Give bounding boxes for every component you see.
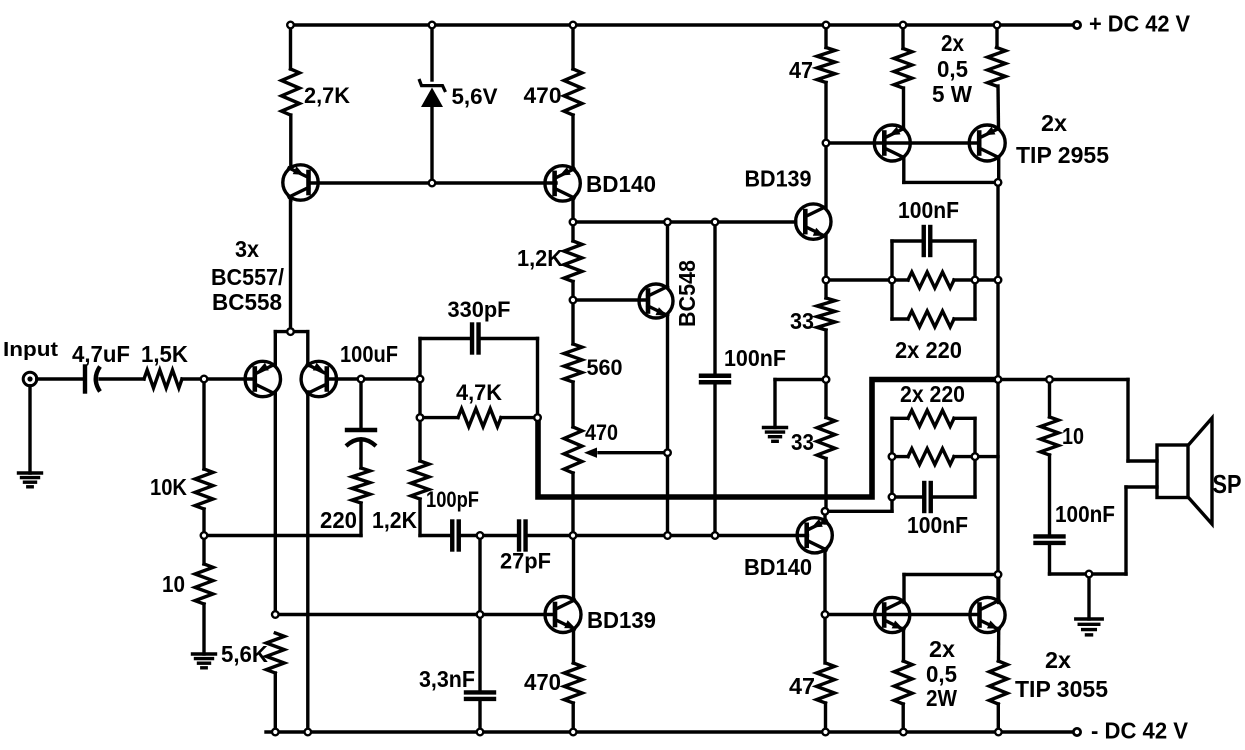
svg-text:+ DC 42 V: + DC 42 V [1089,11,1191,37]
wire out rail [996,182,999,600]
resistor 560 [564,344,582,382]
zener D1 5,6V [419,79,446,183]
resistor 1,2K lower [411,461,429,499]
wire q11 emitter [902,629,905,662]
svg-text:1,2K: 1,2K [517,245,563,271]
wire 10K to node [202,509,205,536]
svg-text:5,6K: 5,6K [221,641,268,667]
svg-text:2x 220: 2x 220 [900,381,965,407]
label +DC 42 V [1089,11,1191,37]
wire 100pF to node [462,534,480,537]
resistor 0,5 2W a [894,661,912,704]
wire 2,7K to rail [289,25,292,69]
svg-text:BD139: BD139 [745,166,812,192]
label 100nF mid [724,345,786,371]
label 3x [235,236,259,262]
node zener bottom [429,180,436,187]
wire -DC rail [266,730,1077,733]
node block2 right [972,453,979,460]
wire node to 10 [202,536,205,565]
wire lower base line [275,613,555,616]
node drv base3055 [822,611,829,618]
wire comp mid to bc548 [573,534,668,537]
wire block1 top [892,239,975,242]
wire q10 collector [997,158,1000,183]
label 2x bot [929,636,955,662]
label 2x 220 b1 [895,337,962,363]
wire 470low bottom [572,703,575,732]
wire b2 to rail [975,455,998,458]
node rail 280 [995,277,1002,284]
wire 10 top [1048,380,1051,418]
wire 0,5a down [902,88,905,129]
wire BC548 collector [666,222,669,287]
resistor 470 top [564,69,582,115]
wire b2 top joins [892,417,975,420]
svg-text:3,3nF: 3,3nF [419,666,475,692]
wire node to 27pF [480,534,519,537]
wire drv to 47low [823,615,826,664]
svg-text:100nF: 100nF [907,512,968,538]
svg-text:2x: 2x [1045,647,1071,673]
node fb right [534,414,541,421]
label TIP 3055 [1015,676,1108,702]
svg-text:100uF: 100uF [340,341,398,367]
wire bc548 base [573,298,648,301]
label 2x 220 b2 [900,381,965,407]
wire 47low bottom [824,703,827,732]
label 0,5 top [937,56,968,82]
label 2,7K [304,83,350,108]
wire fb right down [536,339,539,418]
label 47 low [789,673,815,699]
svg-text:TIP 3055: TIP 3055 [1015,676,1108,702]
label 1,2K upper [517,245,563,271]
label 1,5K [141,341,188,367]
wire 5,6K bottom [274,673,277,732]
wire 470 to Q4 [571,115,574,169]
node out top [995,179,1002,186]
svg-text:0,5: 0,5 [937,56,968,82]
capacitor 330pF [472,325,479,353]
wire bd139u collector [824,143,827,208]
wire 33l joins [824,380,827,512]
svg-text:SP: SP [1213,469,1242,499]
svg-text:2,7K: 2,7K [304,83,350,108]
svg-text:4,7uF: 4,7uF [72,341,130,367]
capacitor 3,3nF [466,692,494,699]
resistor 47 top [817,48,835,83]
label 100nF zobel [1055,501,1115,527]
label 10 zobel [1062,423,1084,449]
node comp 100nF [712,532,719,539]
wire C1 to R1 [100,377,144,380]
ground input [19,473,42,487]
wire speaker minus [1126,487,1157,574]
transistor Q9 TIP2955 [874,125,910,161]
svg-text:BC558: BC558 [212,289,282,315]
wire node to 10K [202,379,205,469]
wiper arrow [584,448,668,458]
svg-text:2x 220: 2x 220 [895,337,962,363]
wire zobel gnd [1087,574,1090,619]
node fb top [417,376,424,383]
wire 4,7K right [501,416,538,419]
label 2x top [941,30,964,56]
label 2x 2955 [1041,110,1067,136]
wire 3,3nF bottom [478,702,481,732]
node out low [995,571,1002,578]
svg-text:27pF: 27pF [500,549,551,574]
node rail left [287,22,294,29]
svg-text:Input: Input [3,339,58,361]
label 5,6V [452,84,498,109]
label BC558 [212,289,282,315]
wire 330pF right [482,337,538,340]
wire base 3055 [825,613,980,616]
wire Q3 emitter [306,332,309,366]
wire base 2955 [826,141,980,144]
wire 0,5 2W a bot [902,704,905,732]
wire block1 left [890,241,893,319]
svg-text:1,2K: 1,2K [372,507,417,533]
label 10 [162,571,185,597]
capacitor 100nF mid [701,376,729,383]
label 0,5 bot [926,661,957,687]
label 470 top [524,83,562,108]
label BC557/ [211,264,285,290]
wire Q3base down [359,379,362,428]
node rail 3,3nF [477,729,484,736]
wire 280 line [826,278,892,281]
svg-text:10: 10 [1062,423,1084,449]
node rail 5,6K [272,729,279,736]
label 100nF b1 [898,197,959,223]
wire speaker plus [1128,380,1157,462]
resistor 0,5 2W b [989,661,1007,704]
node wiper junction [664,449,671,456]
wire block1 right [973,241,976,319]
capacitor 100nF b2 [924,483,931,511]
wire block2 left [890,418,893,497]
svg-text:470: 470 [524,83,562,108]
wire fb up [418,339,421,380]
node rail Q3 [305,729,312,736]
wire 10 to 100nF [1048,455,1051,534]
node rail 2Wb [995,729,1002,736]
terminal -DC [1073,728,1080,735]
resistor 47 low [817,663,835,703]
node block2 bl [889,494,896,501]
node rail 47low [822,729,829,736]
node emitter junction [287,328,294,335]
transistor Q12 TIP3055 [970,597,1005,632]
capacitor 100nF b1 [924,227,931,255]
transistor Q2 BC557 [245,361,280,396]
wire Q2 emitter [274,332,277,366]
node comp mid [570,532,577,539]
transistor Q1 BC557 [283,165,318,200]
label -DC 42 V [1091,718,1189,744]
wire 33u joins [824,280,827,380]
node drv low [822,508,829,515]
node fb mid [417,414,424,421]
wire 330pF left [420,337,469,340]
wire rail to 0,5a [901,25,904,49]
label 10K [150,474,187,500]
wire 1,2K lower top [418,418,421,461]
label 2x 3055 [1045,647,1071,673]
wire 4,7K left [420,416,458,419]
transistor Q8 BD140 [797,518,832,553]
svg-text:5,6V: 5,6V [452,84,498,109]
wire 560 join [571,300,574,427]
svg-text:5 W: 5 W [932,81,972,107]
resistor 1,2K upper [564,241,582,282]
label 470 trimmer [585,420,618,445]
svg-text:100nF: 100nF [898,197,959,223]
label BC548 [674,260,700,327]
transistor Q3 BC557 [301,361,336,396]
node rail 2Wa [900,729,907,736]
node 222 bc548 [664,219,671,226]
ground mid-left [193,654,216,668]
label BD140 top [586,171,656,197]
label 100uF [340,341,398,367]
wire Q2 collector leg [274,392,277,615]
svg-text:47: 47 [789,673,815,699]
wire q11 collector [904,575,998,603]
node rail 470 [570,729,577,736]
wire bd139u emitter [824,236,827,280]
label 47 top [789,57,813,83]
wire 0,5 2W b bot [997,704,1000,732]
wire q12 emitter [997,629,1001,662]
label 2W bot [926,685,957,711]
node 222 cap [712,219,719,226]
capacitor 4,7uF [85,367,100,392]
svg-text:BC557/: BC557/ [211,264,285,290]
svg-text:10K: 10K [150,474,187,500]
wire rail to 47 [824,25,827,48]
svg-text:TIP 2955: TIP 2955 [1016,142,1109,168]
svg-text:2x: 2x [929,636,955,662]
wire Q3 collector leg [306,392,309,732]
resistor 10 [195,564,213,604]
resistor 470 low [564,663,582,703]
transistor Q4 BD140 [545,166,580,201]
node drv 280 [823,277,830,284]
resistor 0,5 5W a [894,49,912,89]
svg-text:100nF: 100nF [1055,501,1115,527]
label 4,7K [456,380,502,405]
resistor 5,6K [266,633,284,673]
node bias mid [823,376,830,383]
wire out to speaker [997,378,1128,381]
svg-text:10: 10 [162,571,185,597]
transistor Q11 TIP3055 [875,597,910,632]
label BD139 lower [587,607,656,633]
wire gnd jack [28,386,31,473]
resistor 10 zobel [1041,417,1059,455]
label 100nF b2 [907,512,968,538]
label 100pF [426,487,479,512]
svg-text:- DC 42 V: - DC 42 V [1091,718,1189,744]
svg-text:220: 220 [320,507,357,533]
svg-text:BD140: BD140 [744,554,812,580]
svg-text:3x: 3x [235,236,259,262]
wire b2 mid joins [892,455,975,458]
resistor 2,7K [282,69,300,115]
wire feedback bottom [204,534,361,537]
svg-text:470: 470 [524,669,561,695]
svg-text:47: 47 [789,57,813,83]
wire 100uF to 220 [359,443,362,468]
node 560 top [570,297,577,304]
transistor Q10 TIP2955 [969,125,1005,161]
svg-text:33: 33 [791,429,814,455]
resistor 33 upper [817,298,835,330]
wire Q6 emitter [572,629,575,663]
label 220 [320,507,357,533]
wire BC548 emitter [666,316,669,536]
wire block2 right [973,418,976,497]
wire R1 to base [182,377,255,380]
node VAS 222 [570,219,577,226]
capacitor 100nF zobel [1036,536,1064,543]
wire 220 bottom [359,503,362,536]
label 1,2K lower [372,507,417,533]
svg-text:4,7K: 4,7K [456,380,502,405]
wire feedback thick [538,380,997,498]
node comp down [477,611,484,618]
input jack J1 [23,372,37,386]
wire Q6 collector [572,536,575,601]
node rail zener [429,22,436,29]
resistor 10K [195,469,213,509]
wire Q1 base [309,181,433,184]
wire comp to 100nF [668,534,716,537]
svg-text:100nF: 100nF [724,345,786,371]
node block2 left [889,453,896,460]
label 27pF [500,549,551,574]
wire comp to driver [715,534,808,537]
wire 27pF to mid [526,534,574,537]
wire input to C1 [37,377,82,380]
node block1 left [889,277,896,284]
wire 1,2K lower bottom [420,499,449,536]
node Q3 base [358,376,365,383]
resistor 220 [352,468,370,503]
wire q8 collector [823,549,826,615]
wire block2 bottom [892,495,975,498]
wire +DC rail [291,23,1078,26]
wire b1 mid joins [892,278,975,281]
ground bias [764,428,787,442]
wire 100nF bottom [713,385,716,536]
wire rail to 470 [571,25,574,69]
wire drvlow to block2 [825,497,892,511]
wire 0,5b down [996,86,1000,129]
transistor Q5 BC548 [639,284,673,318]
transistor Q6 BD139 [545,597,581,633]
resistor 4,7K [458,409,501,427]
label 560 [587,355,623,380]
wire 10 to gnd [202,604,205,654]
wire q9 collector [904,158,998,183]
capacitor 100uF [346,430,376,446]
svg-text:BD139: BD139 [587,607,656,633]
wire q8 emitter [823,511,826,523]
label 3,3nF [419,666,475,692]
label TIP 2955 [1016,142,1109,168]
wire 100nF top [713,222,716,373]
wire Q1 collector [289,197,292,201]
resistor 220 b1 mid [908,272,954,288]
transistor Q7 BD139 [796,204,831,239]
speaker SP [1157,418,1212,524]
wire emitter bar [275,330,308,333]
svg-text:2x: 2x [1041,110,1067,136]
label 330pF [448,297,511,322]
svg-text:33: 33 [790,308,814,334]
svg-text:BD140: BD140 [586,171,656,197]
svg-text:2W: 2W [926,685,957,711]
svg-text:330pF: 330pF [448,297,511,322]
wire Q1 emitter up [289,115,292,168]
wire zener to Q4 base [432,181,556,184]
wire q12 collector [997,575,1000,603]
wire trim to node [571,473,574,536]
node input junction [201,376,208,383]
resistor 33 lower [817,418,835,459]
wire 1,2K ends [571,222,574,300]
svg-text:1,5K: 1,5K [141,341,188,367]
wire b1 bot joins [892,317,975,320]
svg-text:560: 560 [587,355,623,380]
label Input [3,339,58,361]
label SP [1213,469,1242,499]
resistor 470 trimmer [564,427,582,473]
label 5,6K [221,641,268,667]
node driver top [823,140,830,147]
resistor 220 b1 bot [908,311,954,327]
wire b1 to rail [975,278,998,281]
wire rail to 0,5b [995,25,998,48]
resistor 220 b2 top [908,410,954,426]
terminal +DC [1073,21,1080,28]
wire base to fb node [361,377,420,380]
node rail 47 [823,22,830,29]
label BD139 upper [745,166,812,192]
resistor R1 1,5K [144,370,182,388]
node comp bc548 [664,532,671,539]
label 5 W top [932,81,972,107]
node 5,6K top [272,611,279,618]
node block1 right [972,277,979,284]
node out mid [995,376,1002,383]
svg-text:2x: 2x [941,30,964,56]
wire 222 line [573,220,796,223]
node rail 0,5b [994,22,1001,29]
svg-text:BC548: BC548 [674,260,700,327]
node rail VAS [570,22,577,29]
wire zener top [430,25,433,80]
label 4,7uF [72,341,130,367]
capacitor 100pF [452,522,459,550]
svg-text:0,5: 0,5 [926,661,957,687]
wire Q3 base [327,377,361,380]
